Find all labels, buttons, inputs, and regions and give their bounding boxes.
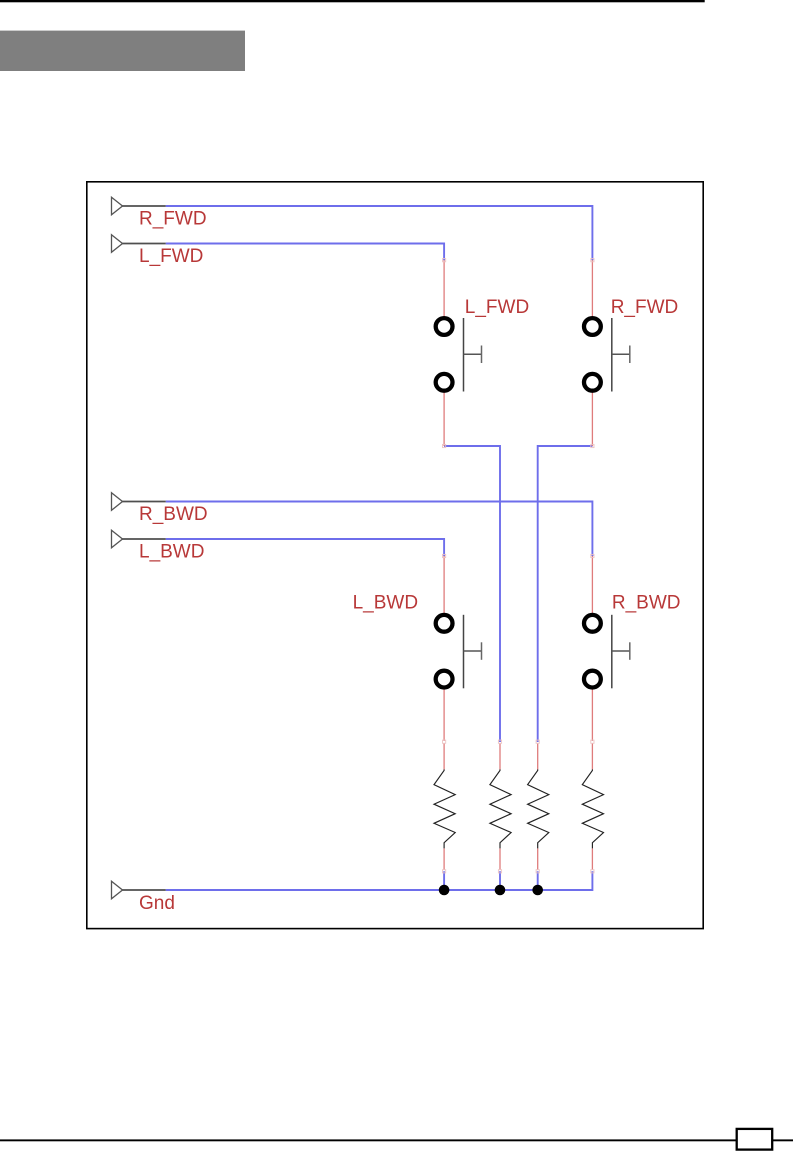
svg-text:R_FWD: R_FWD <box>139 208 207 229</box>
svg-text:R_FWD: R_FWD <box>611 297 679 318</box>
svg-text:Gnd: Gnd <box>139 893 175 914</box>
svg-text:L_BWD: L_BWD <box>139 541 204 562</box>
svg-text:R_BWD: R_BWD <box>139 504 208 525</box>
svg-text:L_BWD: L_BWD <box>353 592 418 613</box>
svg-text:L_FWD: L_FWD <box>139 246 203 267</box>
svg-text:L_FWD: L_FWD <box>465 297 529 318</box>
svg-text:R_BWD: R_BWD <box>612 592 681 613</box>
